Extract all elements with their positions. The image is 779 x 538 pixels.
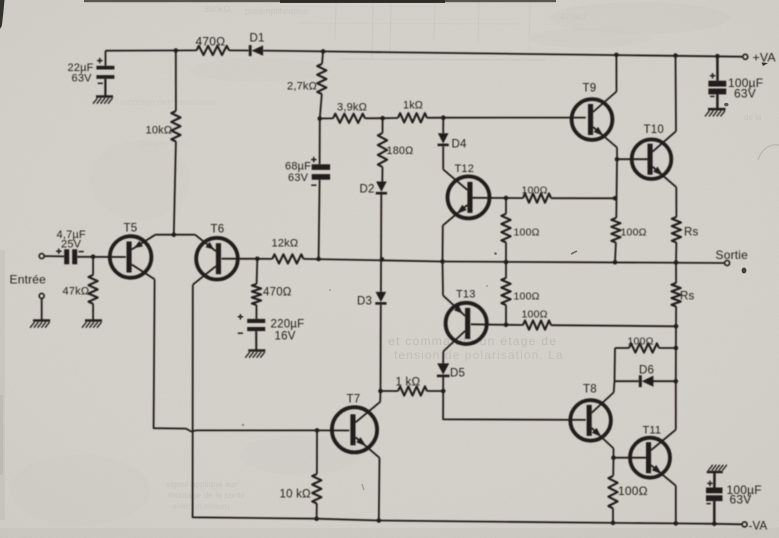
svg-text:D5: D5 bbox=[450, 368, 465, 380]
svg-text:de la: de la bbox=[744, 113, 762, 122]
svg-text:360kΩ: 360kΩ bbox=[204, 4, 231, 14]
svg-text:+VA: +VA bbox=[753, 51, 777, 65]
svg-text:47kΩ: 47kΩ bbox=[63, 286, 90, 298]
svg-text:63V: 63V bbox=[730, 493, 752, 507]
svg-text:1 kΩ: 1 kΩ bbox=[396, 377, 421, 389]
svg-text:T13: T13 bbox=[456, 289, 476, 301]
svg-text:Sortie: Sortie bbox=[716, 248, 749, 262]
svg-text:100Ω: 100Ω bbox=[621, 227, 647, 239]
svg-text:63V: 63V bbox=[72, 73, 93, 85]
svg-text:D3: D3 bbox=[357, 296, 372, 308]
svg-text:100Ω: 100Ω bbox=[522, 185, 548, 197]
svg-text:Rs: Rs bbox=[684, 227, 699, 239]
svg-text:100Ω: 100Ω bbox=[628, 336, 654, 348]
svg-text:10 kΩ: 10 kΩ bbox=[280, 489, 312, 501]
svg-text:12kΩ: 12kΩ bbox=[272, 238, 299, 250]
svg-text:3,9kΩ: 3,9kΩ bbox=[337, 102, 367, 114]
svg-text:D4: D4 bbox=[452, 139, 468, 151]
svg-text:Rs: Rs bbox=[680, 291, 695, 303]
svg-text:signal appliqué sur: signal appliqué sur bbox=[166, 479, 237, 489]
svg-text:100Ω: 100Ω bbox=[618, 484, 648, 498]
svg-text:10kΩ: 10kΩ bbox=[146, 125, 173, 137]
svg-text:D2: D2 bbox=[360, 184, 375, 196]
svg-text:100Ω: 100Ω bbox=[514, 291, 540, 303]
svg-text:Entrée: Entrée bbox=[10, 273, 47, 287]
svg-text:2,7kΩ: 2,7kΩ bbox=[287, 81, 317, 93]
svg-text:T11: T11 bbox=[643, 425, 662, 437]
svg-text:T8: T8 bbox=[583, 384, 597, 396]
svg-text:T6: T6 bbox=[211, 224, 225, 236]
svg-text:D6: D6 bbox=[639, 365, 654, 377]
svg-text:T5: T5 bbox=[124, 223, 138, 235]
svg-text:16V: 16V bbox=[275, 331, 296, 343]
svg-text:470Ω: 470Ω bbox=[263, 287, 292, 299]
svg-text:montage de la sortie: montage de la sortie bbox=[168, 490, 245, 500]
svg-text:470Ω: 470Ω bbox=[196, 35, 226, 49]
svg-text:D1: D1 bbox=[250, 33, 265, 45]
svg-text:T12: T12 bbox=[455, 163, 475, 175]
svg-text:montage des transistors: montage des transistors bbox=[120, 97, 217, 107]
svg-text:T10: T10 bbox=[644, 124, 664, 136]
svg-text:100Ω: 100Ω bbox=[522, 309, 548, 321]
svg-text:63V: 63V bbox=[288, 172, 309, 184]
svg-text:1kΩ: 1kΩ bbox=[403, 100, 423, 112]
svg-text:-VA: -VA bbox=[749, 521, 768, 533]
svg-text:220µF: 220µF bbox=[271, 319, 305, 331]
svg-text:180Ω: 180Ω bbox=[387, 145, 414, 157]
svg-text:25V: 25V bbox=[61, 239, 82, 251]
svg-text:68µF: 68µF bbox=[285, 161, 311, 173]
svg-text:préamplificateur: préamplificateur bbox=[245, 6, 309, 16]
svg-text:T7: T7 bbox=[347, 394, 361, 406]
svg-text:100Ω: 100Ω bbox=[514, 227, 540, 239]
svg-text:avec un niveau: avec un niveau bbox=[172, 501, 229, 511]
svg-text:T9: T9 bbox=[583, 83, 597, 95]
svg-text:63V: 63V bbox=[734, 87, 756, 101]
svg-text:tension de polarisation. La: tension de polarisation. La bbox=[394, 348, 564, 362]
